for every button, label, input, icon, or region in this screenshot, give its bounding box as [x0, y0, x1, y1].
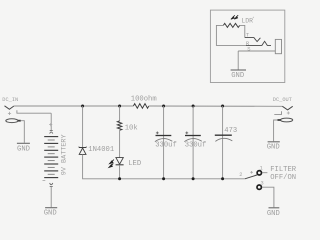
wire C2 branch — [192, 106, 194, 179]
connector J1 plus label — [8, 112, 11, 115]
svg-text:GND: GND — [267, 210, 280, 218]
svg-text:9V BATTERY: 9V BATTERY — [60, 134, 68, 175]
jack J3 plug body rectangle — [275, 39, 281, 53]
svg-text:10k: 10k — [125, 124, 138, 132]
wire top rail right (R1 to DC_OUT) — [149, 105, 283, 107]
switch S1 contact 1 — [257, 171, 261, 175]
switch S1 plus mark — [250, 171, 253, 174]
capacitor C1 curved plate — [155, 139, 172, 142]
node junction dot C2 top — [192, 105, 195, 108]
connector J2 DC_OUT tip switch contact — [282, 106, 292, 110]
LED D2 triangle — [116, 158, 123, 165]
ground GND5 (box) — [231, 69, 246, 71]
box detail inset rectangle — [210, 10, 284, 82]
node junction dot LED bottom — [118, 177, 121, 180]
switch S1 lever — [245, 175, 257, 179]
capacitor C2 plus label — [185, 132, 188, 135]
connector J2 sleeve barrel — [281, 118, 293, 122]
wire top rail left (DC_IN to R1) — [14, 105, 133, 107]
node junction dot R2 top — [118, 105, 121, 108]
battery BAT1 minus label — [43, 179, 46, 181]
node junction dot C1 bottom — [162, 177, 165, 180]
capacitor C3 curved plate — [215, 138, 232, 141]
wire rail to diode — [82, 106, 84, 147]
wire sleeve to ground — [274, 120, 278, 141]
LDR R3 body — [223, 23, 239, 27]
wire battery positive drop — [50, 113, 52, 130]
node junction dot C3 top — [221, 105, 224, 108]
LED D2 emission arrows — [109, 160, 114, 168]
capacitor C1 plus label — [156, 132, 159, 135]
svg-text:1N4001: 1N4001 — [88, 146, 114, 154]
ground GND3 (DC_OUT) — [268, 141, 280, 143]
wire LED to bottom rail — [119, 165, 121, 179]
LED D2 cathode bar — [116, 164, 124, 166]
connector J1 sleeve barrel — [6, 119, 18, 123]
ground GND4 (switch) — [269, 207, 280, 209]
svg-text:FILTER: FILTER — [270, 166, 297, 174]
node junction dot C2 bottom — [192, 177, 195, 180]
switch S1 pin 1 stub — [262, 172, 267, 174]
battery BAT1 cells — [44, 137, 58, 178]
svg-text:473: 473 — [224, 127, 237, 135]
battery BAT1 top clip — [50, 130, 53, 133]
wire switch pin3 to ground — [262, 187, 274, 207]
LDR R3 light arrows — [231, 15, 238, 19]
jack J3 tip line and contact — [245, 38, 261, 42]
svg-text:GND: GND — [231, 72, 244, 80]
connector J1 DC_IN tip switch contact — [5, 106, 14, 110]
svg-text:DC_OUT: DC_OUT — [273, 97, 292, 103]
LDR R3 label tick — [253, 17, 254, 18]
capacitor C1 positive plate — [156, 135, 172, 137]
wire C3 branch — [222, 106, 224, 179]
wire battery negative to ground — [50, 187, 52, 207]
svg-text:330uf: 330uf — [185, 142, 207, 150]
svg-text:330uf: 330uf — [155, 142, 177, 150]
diode D1 1N4001 cathode bar — [79, 146, 87, 149]
wire sleeve to box ground — [237, 51, 239, 70]
ground GND2 (battery) — [45, 207, 57, 209]
capacitor C3 top plate — [215, 134, 232, 136]
wire 10k to LED — [119, 130, 121, 157]
svg-text:GND: GND — [267, 144, 280, 152]
connector J1 sleeve pin nub — [18, 120, 21, 122]
svg-text:100ohm: 100ohm — [131, 96, 157, 104]
capacitor C2 positive plate — [185, 135, 201, 137]
svg-text:OFF/ON: OFF/ON — [270, 174, 296, 182]
svg-text:LED: LED — [128, 160, 141, 168]
diode D1 1N4001 triangle — [79, 148, 86, 154]
node junction dot C3 bottom — [221, 177, 224, 180]
ground GND1 (DC_IN) — [17, 142, 30, 144]
connector J2 lower fixed contact — [274, 111, 281, 114]
svg-text:GND: GND — [17, 146, 30, 154]
resistor R2 10k body — [117, 121, 121, 130]
battery BAT1 bottom clip — [50, 183, 53, 187]
svg-text:GND: GND — [44, 210, 57, 218]
switch S1 contact 3 — [257, 185, 261, 189]
wire rail to 10k — [119, 106, 121, 121]
jack J3 ring line and contact bump — [246, 41, 271, 45]
svg-text:DC_IN: DC_IN — [2, 97, 18, 103]
battery BAT1 plus label — [49, 123, 52, 126]
resistor R1 100ohm body — [133, 104, 148, 109]
wire LDR right lead to tip row — [240, 25, 245, 37]
capacitor C2 curved plate — [184, 139, 201, 142]
svg-text:LDR: LDR — [241, 17, 253, 24]
wire LDR left lead loop to ring row — [216, 25, 246, 45]
svg-text:2: 2 — [239, 172, 242, 178]
jack J3 sleeve line — [238, 50, 275, 52]
wire C1 branch — [163, 106, 165, 179]
wire sleeve to ground — [21, 121, 25, 143]
connector J1 DC_IN lower fixed contact — [17, 110, 51, 113]
wire diode to bottom rail corner — [83, 154, 245, 178]
connector J2 plus label — [287, 112, 290, 115]
node junction dot D1 top — [81, 105, 84, 108]
connector J2 sleeve pin nub — [278, 119, 281, 121]
node junction dot C1 top — [162, 105, 165, 108]
